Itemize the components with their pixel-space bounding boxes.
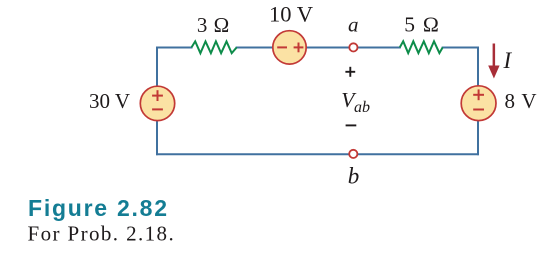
svg-text:30 V: 30 V — [89, 89, 130, 113]
svg-text:ab: ab — [354, 99, 370, 116]
svg-text:3 Ω: 3 Ω — [197, 13, 229, 37]
svg-text:5 Ω: 5 Ω — [404, 12, 439, 36]
svg-text:I: I — [503, 48, 513, 73]
svg-text:8 V: 8 V — [505, 89, 537, 113]
svg-text:For Prob. 2.18.: For Prob. 2.18. — [28, 221, 176, 245]
svg-text:a: a — [348, 13, 359, 37]
svg-text:10 V: 10 V — [269, 2, 313, 27]
svg-text:b: b — [348, 163, 360, 188]
svg-text:Figure 2.82: Figure 2.82 — [28, 195, 167, 221]
